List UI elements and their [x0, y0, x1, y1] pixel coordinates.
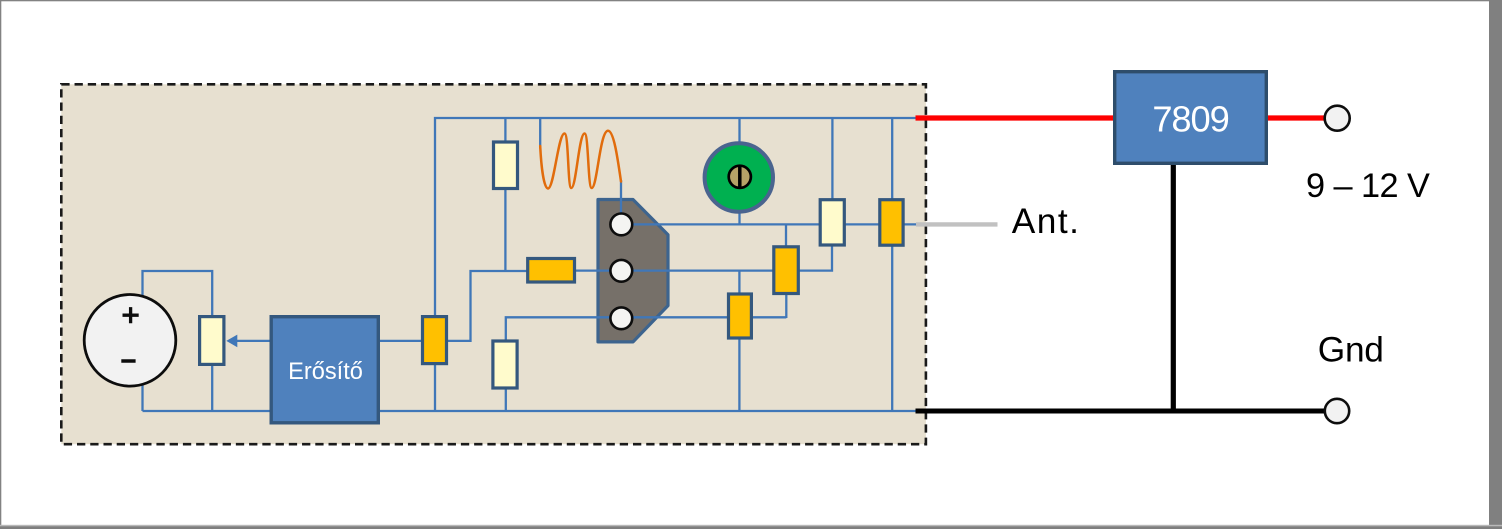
voltage regulator 7809 [1115, 72, 1267, 164]
pin 3 (emitter) [610, 307, 632, 329]
svg-text:Ant.: Ant. [1012, 202, 1081, 241]
pot wiper arrow [226, 335, 237, 348]
black wire: 7809 ground leg [1171, 165, 1176, 411]
capacitor C1 (orange, on amp output) [423, 317, 447, 364]
resistor R2 (cream, lower) [493, 341, 517, 388]
wire: R1 top to supply rail [504, 118, 506, 142]
trimmer screw head [729, 166, 751, 188]
wire: trimmer bottom to antenna line [738, 209, 740, 226]
Gnd terminal [1325, 399, 1349, 423]
wire: emitter line to R2 [506, 317, 787, 341]
capacitor C4 (orange, feedback) [774, 247, 799, 294]
potentiometer P1 body [200, 317, 224, 365]
wire: mic bottom to ground rail [141, 384, 143, 411]
V+ terminal [1325, 106, 1350, 131]
trimmer screw slot [738, 165, 742, 189]
wire: coil top stub [539, 118, 541, 149]
wire: R1 bottom to node [504, 189, 506, 272]
red V+ wire [916, 115, 1326, 120]
wire: mic top loop to potentiometer [143, 271, 213, 317]
coil L1 [540, 131, 621, 189]
wire: coupling cap C2 to transistor base, up to R3 bottom [576, 246, 833, 271]
wire: potentiometer bottom to ground rail [211, 365, 213, 411]
wire: pot wiper to amplifier input [237, 340, 271, 342]
svg-text:7809: 7809 [1152, 99, 1228, 140]
wire: R3 top to supply rail [831, 118, 833, 200]
wire: output cap C5 rail through to ground [891, 118, 893, 411]
capacitor C3 (orange, emitter to gnd) [729, 294, 752, 338]
wire: C3 bottom to ground rail [738, 339, 740, 412]
resistor R3 (cream, base bias) [820, 200, 844, 245]
transistor Q1 body [598, 200, 668, 342]
wire: amplifier output through C1 up to node [380, 271, 527, 341]
wire: trimmer top to supply rail [738, 118, 740, 144]
trimmer capacitor VC1 (green) [705, 143, 773, 211]
black wire: ground rail to terminal [916, 409, 1326, 414]
minus sign [121, 359, 135, 363]
frame left edge [0, 0, 1, 529]
wire: coil bottom stub to collector pin [620, 180, 622, 226]
dashed schematic enclosure [61, 84, 926, 444]
wire: C3 top to base line [738, 271, 740, 294]
capacitor C5 (orange, antenna coupling) [880, 200, 903, 246]
svg-text:9 – 12 V: 9 – 12 V [1306, 167, 1430, 205]
wire: bottom ground rail [143, 410, 917, 412]
plus sign [123, 307, 139, 323]
svg-text:Gnd: Gnd [1318, 331, 1384, 370]
frame right bar [1489, 0, 1502, 529]
wire: collector/antenna line [632, 223, 917, 225]
frame bottom bar [0, 525, 1502, 527]
svg-text:Erősítő: Erősítő [288, 359, 363, 385]
wire: R2 bottom to ground rail [505, 389, 507, 412]
resistor R1 (cream, upper) [494, 142, 518, 189]
wire: top supply rail + left vertical rail [435, 118, 917, 411]
wire: C4 bottom to emitter line [785, 294, 787, 318]
frame top edge [0, 0, 1502, 1]
microphone source circle [84, 295, 176, 387]
coupling capacitor C2 (orange, horizontal) [528, 259, 575, 283]
gray antenna stub [916, 222, 998, 226]
amplifier block U1 Erősítő [271, 317, 378, 423]
pin 1 (collector) [610, 214, 632, 236]
pin 2 (base) [610, 260, 632, 282]
wire: C4 top to antenna line [785, 224, 787, 247]
